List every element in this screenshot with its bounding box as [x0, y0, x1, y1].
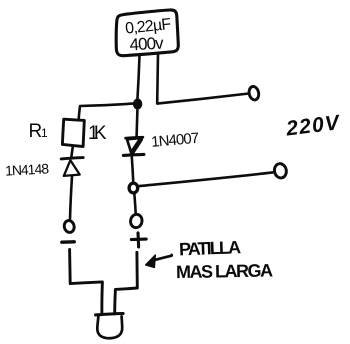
wire: loop to plus terminal: [134, 193, 135, 214]
terminal: minus circle: [63, 219, 75, 233]
wire: loop to lower 220V terminal: [138, 172, 273, 186]
wire: C1 left lead down to junction: [137, 56, 139, 101]
diode D1 1N4007 triangle: [127, 138, 142, 153]
terminal: lower right circle: [273, 163, 288, 180]
diode D2 1N4148 triangle: [64, 160, 80, 176]
terminal: plus circle: [130, 213, 144, 228]
node: junction loop: [129, 183, 138, 193]
svg-text:1: 1: [41, 126, 48, 140]
svg-text:1N4148: 1N4148: [5, 160, 50, 178]
svg-text:1N4007: 1N4007: [151, 130, 200, 151]
diode D1 1N4007 anode bar: [126, 136, 143, 140]
wire: LED right leg: [115, 252, 138, 313]
wire: D1 to junction loop: [132, 157, 134, 183]
svg-text:220V: 220V: [284, 111, 342, 141]
capacitor C1 body: [116, 10, 178, 56]
svg-text:1K: 1K: [88, 123, 107, 144]
LED body top bar: [96, 314, 124, 315]
plus sign: [131, 238, 146, 242]
resistor R1 box: [62, 119, 84, 146]
diode D1 cathode bar: [123, 154, 143, 155]
node: junction dot: [133, 99, 142, 110]
wire: C1 right lead down: [156, 54, 159, 104]
wire: D1 junction to diode: [135, 110, 138, 136]
wire: D2 to minus terminal: [70, 176, 72, 220]
wire: junction left and down to resistor: [79, 104, 133, 120]
svg-text:MAS LARGA: MAS LARGA: [176, 260, 273, 282]
diode D2 1N4148 cathode bar: [61, 158, 83, 159]
wire: right lead to upper 220V terminal: [157, 94, 249, 104]
arrow to plus leg: [154, 255, 172, 260]
wire: resistor to diode D2: [71, 147, 73, 158]
wire: LED left leg: [70, 250, 103, 314]
diode D1 thick right edge: [132, 140, 140, 153]
minus sign: [62, 240, 75, 244]
terminal: upper right circle: [248, 86, 260, 101]
LED body dome: [97, 316, 122, 338]
svg-text:400v: 400v: [129, 34, 164, 55]
svg-text:PATILLA: PATILLA: [179, 237, 242, 259]
